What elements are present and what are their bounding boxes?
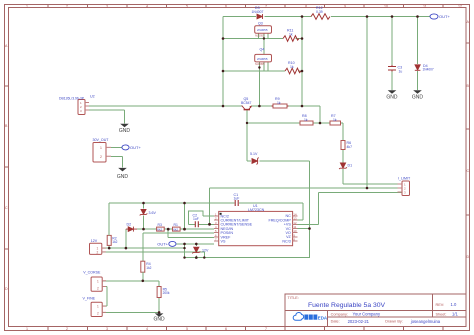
resistor R11 zigzag	[283, 36, 299, 42]
wire D4 to GND	[417, 71, 419, 90]
EasyEDA logo CJK glyph block 3	[313, 315, 317, 320]
border zone ticks bottom	[48, 327, 443, 331]
wire corner down to R5	[158, 281, 160, 287]
svg-text:MJ2955: MJ2955	[255, 33, 265, 37]
svg-text:2: 2	[97, 251, 99, 255]
wire Q4 pin stubs	[264, 62, 268, 71]
wire V_CORSE pin2 link	[102, 287, 107, 307]
net flag OUT+ middle	[157, 241, 176, 246]
svg-text:1.0: 1.0	[451, 302, 457, 307]
svg-text:4: 4	[146, 327, 148, 331]
junction row229 at 3.6V zener	[142, 228, 145, 231]
svg-text:1: 1	[100, 146, 102, 150]
svg-text:1: 1	[26, 327, 28, 331]
svg-text:4: 4	[146, 5, 148, 9]
svg-text:12V: 12V	[202, 249, 209, 253]
svg-text:OUT+: OUT+	[439, 14, 450, 19]
wire R1 to NEG/IN pin row	[180, 228, 214, 230]
junction rail1 at Q3 middle pin	[263, 37, 265, 39]
svg-text:BC547: BC547	[241, 101, 251, 105]
wire R8 to R7	[313, 122, 330, 124]
svg-text:9: 9	[344, 5, 346, 9]
svg-text:DB126L/3.96-3P: DB126L/3.96-3P	[59, 96, 85, 100]
svg-text:1: 1	[26, 5, 28, 9]
svg-text:1u: 1u	[399, 70, 403, 74]
junction 12V pin1 row at R2	[108, 247, 111, 250]
junction top rail at x=367	[366, 15, 369, 18]
wire 12V pin1 row	[102, 247, 185, 249]
wire 3.6V zener bottom lead	[143, 216, 145, 230]
EasyEDA logo CJK glyph block 1	[304, 315, 308, 320]
junction rail2 at x=223	[222, 70, 225, 73]
junction OUT+ row at 12V zener	[195, 243, 198, 246]
junction U2 row at x=223	[222, 105, 225, 108]
wire OUT+ flag row to VS pin	[176, 243, 214, 245]
wire emitter rail 1	[223, 38, 283, 40]
capacitor C3	[388, 65, 396, 72]
wire R9 to bus junction	[287, 105, 320, 107]
wire C3 top connection	[391, 17, 393, 67]
svg-text:Company:: Company:	[331, 312, 348, 316]
resistor R10 zigzag	[285, 68, 301, 74]
wire drop x=320 to R8 row	[319, 106, 321, 123]
wire x=142.8 down to R4	[142, 233, 144, 261]
ground symbol below D4	[412, 90, 424, 100]
svg-text:8: 8	[305, 5, 307, 9]
svg-text:2N3055: 2N3055	[257, 57, 268, 61]
svg-text:R3: R3	[158, 223, 162, 227]
svg-text:1k: 1k	[333, 118, 337, 122]
wire 12V pin2 row	[102, 251, 205, 253]
U1 right pin stubs	[293, 216, 298, 241]
junction row229 between R3 R1	[167, 228, 170, 231]
wire POS/IN row	[143, 232, 214, 234]
resistor R5	[157, 287, 161, 298]
connector U2 DB126L/3.96-3P	[78, 100, 89, 115]
wire I_LIMIT pin3 row	[319, 192, 402, 194]
svg-text:VS: VS	[221, 240, 226, 244]
svg-text:1N4007: 1N4007	[423, 68, 434, 72]
U1 left pin stubs	[214, 216, 219, 241]
svg-text:5: 5	[186, 327, 188, 331]
wire D1 down to I_LIMIT row1	[342, 169, 344, 184]
wire R3 to R1 row segment	[164, 228, 172, 230]
svg-text:REV:: REV:	[436, 303, 445, 307]
junction emitter row corner	[246, 122, 248, 124]
title block divider right column	[432, 294, 434, 317]
border zone ticks top	[48, 5, 443, 8]
svg-text:2: 2	[66, 327, 68, 331]
wire Q4 left pin down to Q5 rail	[258, 62, 260, 106]
wire Q3 middle pin down to Q4	[263, 34, 265, 55]
junction bottom row at x=184.5	[183, 256, 185, 258]
diode D4 1N4007	[415, 65, 421, 71]
wire 12V zener bottom lead	[195, 256, 197, 258]
wire C2 loop top	[188, 211, 203, 224]
wire W_B left segment to C1	[109, 202, 234, 204]
wire R4 bottom to V_CORSE row	[142, 272, 144, 281]
svg-text:3: 3	[106, 327, 108, 331]
svg-text:5: 5	[186, 5, 188, 9]
wire long vertical x=367 top rail to I_LIMIT row	[366, 17, 368, 189]
wire x=204.3 link down	[203, 252, 205, 258]
svg-text:7: 7	[265, 5, 267, 9]
junction rail1 at x=302	[301, 37, 304, 40]
junction V_CORSE row at R4	[142, 280, 145, 283]
svg-text:NC/3: NC/3	[282, 239, 290, 243]
junction rail2 at x=302	[301, 70, 304, 73]
wire C2 row right to pin3	[198, 223, 214, 225]
svg-text:1: 1	[97, 279, 99, 283]
resistor R2	[107, 235, 111, 245]
title block divider row2	[327, 316, 465, 318]
svg-text:30V_OUT: 30V_OUT	[93, 138, 110, 142]
svg-text:Your Company: Your Company	[353, 312, 381, 317]
svg-text:Q4: Q4	[260, 47, 265, 51]
resistor R6	[341, 141, 345, 150]
capacitor C2	[195, 221, 198, 227]
wire rail1 R11 to bus	[296, 38, 303, 40]
svg-text:MJ2955: MJ2955	[255, 62, 265, 66]
svg-text:GND: GND	[386, 94, 398, 100]
junction V_FINE row at R5	[158, 311, 161, 314]
svg-text:joseangelmuina: joseangelmuina	[410, 319, 441, 324]
svg-text:V_FINE: V_FINE	[83, 297, 96, 301]
op-amp regulator U1 LM723CN body	[219, 211, 293, 245]
svg-text:R1: R1	[174, 223, 178, 227]
junction 12V pin1 row at x=184.5	[183, 247, 185, 249]
svg-text:3.6V: 3.6V	[149, 211, 157, 215]
svg-text:Drawn By:: Drawn By:	[385, 320, 403, 324]
svg-text:2: 2	[66, 5, 68, 9]
svg-text:1: 1	[97, 305, 99, 309]
junction W_B at 3.6V zener	[142, 202, 145, 205]
wire Q3 pin stubs	[259, 34, 269, 39]
connector 12V	[90, 243, 106, 254]
wire 5.1V zener right to x=309.5	[260, 160, 310, 162]
net flag OUT+ top right	[428, 14, 450, 19]
svg-text:3: 3	[106, 5, 108, 9]
svg-text:GND: GND	[119, 128, 130, 134]
junction W_A at x=367	[366, 187, 369, 190]
svg-text:GND: GND	[412, 94, 424, 100]
wire 30V_OUT pin1 to flag	[111, 146, 122, 148]
wire V_FINE pin2 row	[102, 311, 159, 313]
U1 left pin numbers	[215, 212, 217, 241]
svg-text:OUT+: OUT+	[157, 242, 168, 247]
svg-text:D2: D2	[127, 222, 132, 226]
svg-text:4k7: 4k7	[347, 145, 353, 149]
svg-text:2023-02-21: 2023-02-21	[348, 319, 370, 324]
wire R2 bottom stub	[108, 245, 110, 248]
junction R8 row at x=320	[319, 122, 322, 125]
svg-text:7: 7	[265, 327, 267, 331]
wire emitter rail 2	[223, 70, 285, 72]
wire vertical x=209.5 from W_A to pin3 row	[209, 188, 211, 224]
junction top rail at x=302	[301, 15, 304, 18]
svg-text:Q3: Q3	[258, 22, 263, 26]
wire top rail segment D3 to R12	[265, 16, 312, 18]
svg-text:GND: GND	[154, 317, 166, 323]
connector V_FINE	[91, 302, 106, 316]
svg-text:Sheet:: Sheet:	[436, 312, 447, 316]
wire 3.6V zener top lead	[143, 203, 145, 209]
wire x=303 down to FREQ/COMP	[297, 203, 303, 220]
svg-text:0.39: 0.39	[316, 10, 323, 14]
svg-text:TITLE:: TITLE:	[288, 296, 299, 300]
wire 12V zener top lead	[195, 244, 197, 246]
junction OUT+ row at x=184.5	[183, 243, 186, 246]
wire VC pin to x=309.5	[297, 228, 309, 230]
wire vertical x=309.5 zener to VC and bottom row	[309, 161, 311, 258]
wire C2 row left	[188, 223, 195, 225]
svg-text:V_CORSE: V_CORSE	[83, 271, 101, 275]
wire top rail segment R12 to OUT+ flag	[331, 16, 428, 18]
svg-text:D: D	[5, 287, 8, 291]
svg-text:1/1: 1/1	[452, 312, 458, 317]
svg-text:1uF: 1uF	[193, 217, 199, 221]
wire 30V_OUT pin2 to GND	[111, 156, 123, 167]
ground symbol bottom at R5	[154, 313, 166, 322]
wire C2 loop pin1 row	[203, 215, 214, 217]
title block outline	[285, 294, 466, 326]
junction VC pin at x=309.5	[308, 227, 311, 230]
wire bottom row y=257.6	[185, 257, 310, 259]
svg-text:D1: D1	[348, 164, 353, 168]
svg-text:6: 6	[225, 5, 227, 9]
svg-text:1k: 1k	[289, 33, 293, 37]
wire VREF row	[168, 236, 214, 238]
svg-text:12V: 12V	[91, 239, 98, 243]
svg-text:GND: GND	[117, 174, 128, 180]
wire Q5 emitter rail to R9	[251, 105, 273, 107]
wire x=184.5 upper link	[184, 244, 186, 258]
wire emitter row to R8	[247, 122, 300, 124]
diode D2	[126, 227, 137, 232]
U1 right pin names	[268, 214, 291, 243]
transistor Q3	[255, 26, 272, 38]
svg-text:1N4007: 1N4007	[252, 10, 264, 14]
title block divider row1	[285, 309, 466, 311]
junction rail1 at x=223	[222, 37, 225, 40]
ground symbol below U2	[119, 124, 130, 134]
zener diode 5.1V	[252, 158, 259, 165]
resistor R4	[141, 261, 145, 272]
connector I_LIMIT	[398, 181, 410, 196]
wire C3 to GND	[391, 71, 393, 91]
svg-text:1k: 1k	[277, 101, 281, 105]
zener diode 3.6V	[140, 209, 148, 215]
wire I_LIMIT pin1 row	[343, 183, 402, 185]
U1 right pin numbers	[293, 212, 297, 241]
transistor Q4	[255, 54, 272, 66]
border zone ticks right	[466, 43, 470, 215]
junction top rail at x=392	[391, 15, 394, 18]
zener diode D1	[339, 163, 347, 169]
wire V_CORSE pin1 row	[102, 280, 159, 282]
wire x=184.5 from W_B down to NEG/IN row	[184, 203, 186, 229]
svg-text:OUT+: OUT+	[130, 145, 141, 150]
svg-text:EDA: EDA	[318, 315, 328, 320]
svg-text:1uF: 1uF	[234, 197, 240, 201]
svg-text:U2: U2	[90, 95, 95, 99]
junction bottom row at 12V zener	[195, 256, 198, 259]
svg-text:D: D	[467, 255, 470, 259]
junction top rail at x=417.5	[416, 15, 419, 18]
EasyEDA logo cloud	[293, 313, 303, 321]
wire vertical bus left x=223	[222, 17, 224, 107]
ground symbol below 30V_OUT	[117, 168, 128, 180]
svg-text:1k: 1k	[290, 65, 294, 69]
wire D4 top connection	[417, 17, 419, 65]
junction rail2 at Q4 left pin	[258, 66, 260, 68]
wire R2 top to W_B	[108, 203, 110, 235]
resistor R9	[272, 104, 289, 108]
junction row229 at x=184.5	[183, 228, 186, 231]
resistor R3	[157, 227, 165, 232]
wire R6 to D1	[342, 150, 344, 163]
ground symbol below C3	[386, 90, 398, 100]
wire U2 pin2 row to Q5 collector	[89, 105, 242, 107]
svg-text:2: 2	[100, 155, 102, 159]
svg-text:11: 11	[423, 5, 427, 9]
svg-text:6: 6	[225, 327, 227, 331]
capacitor C1	[235, 200, 238, 206]
wire R7 to corner x=343	[341, 122, 344, 124]
svg-text:1k: 1k	[304, 118, 308, 122]
wire W_B right segment C1 to x=303	[239, 202, 303, 204]
svg-text:6k2: 6k2	[173, 228, 178, 232]
svg-text:6k2: 6k2	[157, 228, 162, 232]
svg-text:C: C	[467, 169, 470, 173]
junction rail at Q4 pin vertical	[258, 105, 261, 108]
svg-text:LM723CN: LM723CN	[248, 208, 265, 212]
resistor R1	[173, 227, 181, 232]
svg-text:2N3055: 2N3055	[257, 28, 268, 32]
junction rail at x=302	[301, 105, 304, 108]
wire W_A horizontal y=188 to I_LIMIT pin2	[210, 187, 403, 189]
svg-text:Date:: Date:	[331, 320, 340, 324]
junction bottom row at x=204.3	[203, 256, 205, 258]
svg-text:Fuente Regulable 5a 30V: Fuente Regulable 5a 30V	[308, 302, 386, 309]
svg-text:C: C	[5, 206, 8, 210]
wire D2 anode drop x=125.9	[125, 229, 127, 248]
wire rail2 R10 to bus	[298, 70, 302, 72]
svg-text:I_LIMIT: I_LIMIT	[398, 177, 411, 181]
svg-text:10: 10	[384, 5, 388, 9]
border zone ticks left	[5, 86, 9, 249]
connector V_CORSE	[91, 277, 106, 291]
junction W_B at x=184.5	[183, 202, 186, 205]
svg-text:12: 12	[458, 5, 462, 9]
svg-text:2: 2	[97, 312, 99, 316]
junction pin3 row at x=209.5	[208, 223, 211, 226]
diode D3 1N4007	[257, 14, 263, 19]
wire U2 pin3 to GND	[89, 110, 125, 123]
resistor R7	[330, 121, 341, 125]
connector 30V_OUT	[93, 143, 111, 163]
wire x=343 down to R6	[342, 123, 344, 141]
svg-text:1k2: 1k2	[112, 240, 117, 244]
junction 12V pin1 row at D2 drop	[125, 247, 128, 250]
wire GND stub below V_FINE row	[158, 312, 160, 314]
svg-text:200k: 200k	[163, 291, 170, 295]
svg-text:5.1V: 5.1V	[250, 152, 258, 156]
wire Q5 base down	[246, 110, 248, 161]
zener diode 12V	[192, 247, 200, 253]
svg-text:2: 2	[97, 286, 99, 290]
EasyEDA logo CJK glyph block 2	[309, 315, 313, 320]
net flag OUT+ at 30V_OUT	[122, 145, 142, 150]
transistor Q5 BC547	[242, 106, 252, 110]
wire D2 to R3 row segment	[137, 228, 157, 230]
resistor R12 zigzag	[311, 14, 330, 20]
resistor R8	[300, 121, 313, 125]
wire vertical bus right x=302	[301, 17, 303, 107]
U1 left pin names	[221, 214, 253, 243]
wire x=318.7 down to +VS pin	[297, 193, 318, 225]
wire x=168.2 link to VREF row	[167, 229, 169, 237]
title block divider logo cell	[326, 310, 328, 326]
wire R5 bottom link	[158, 298, 160, 313]
svg-text:1k2: 1k2	[146, 266, 151, 270]
wire top rail segment left of D3	[223, 16, 256, 18]
wire 5.1V zener left lead	[247, 160, 251, 162]
